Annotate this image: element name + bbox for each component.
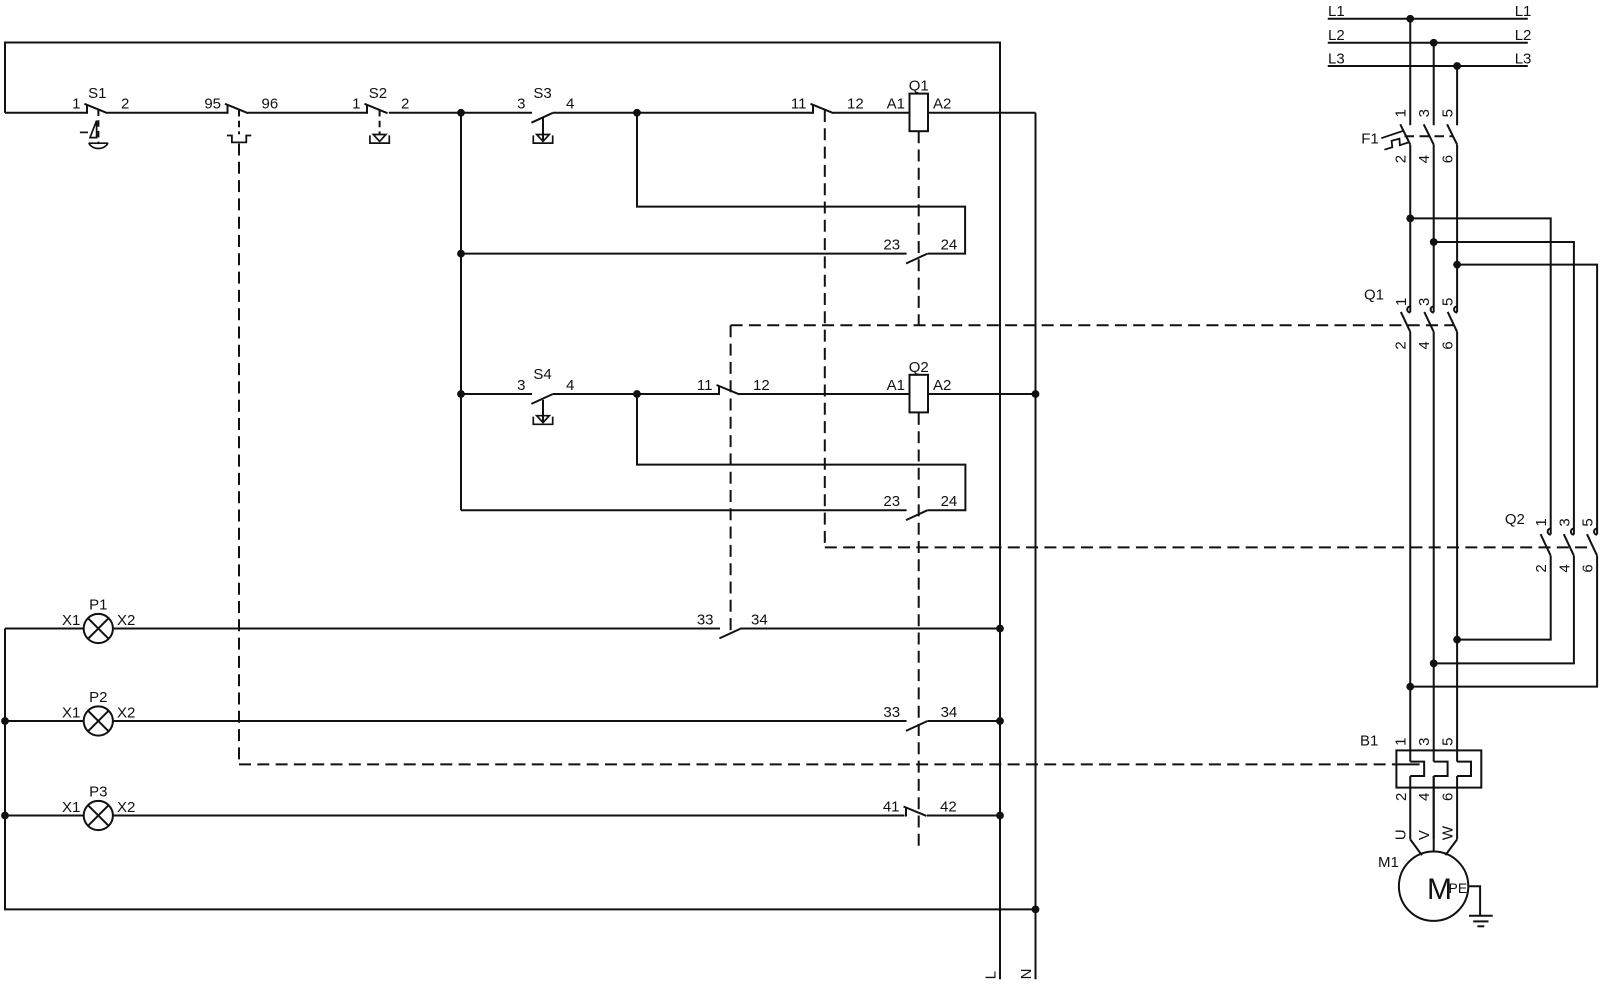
svg-text:6: 6 xyxy=(1440,341,1457,349)
svg-text:3: 3 xyxy=(1416,109,1433,117)
svg-text:F1: F1 xyxy=(1361,130,1379,147)
svg-text:11: 11 xyxy=(697,377,713,394)
svg-text:3: 3 xyxy=(1416,738,1433,746)
svg-text:33: 33 xyxy=(883,704,900,721)
svg-text:24: 24 xyxy=(941,493,958,510)
svg-text:1: 1 xyxy=(1393,738,1410,746)
svg-text:3: 3 xyxy=(517,96,525,113)
svg-text:A2: A2 xyxy=(933,377,951,394)
svg-text:B1: B1 xyxy=(1360,733,1378,750)
svg-text:41: 41 xyxy=(883,798,900,815)
svg-text:1: 1 xyxy=(1393,109,1410,117)
svg-text:A1: A1 xyxy=(887,96,905,113)
svg-text:U: U xyxy=(1393,829,1410,840)
svg-text:L1: L1 xyxy=(1328,3,1345,20)
svg-text:L: L xyxy=(983,971,1000,979)
svg-text:P1: P1 xyxy=(89,597,107,614)
svg-text:5: 5 xyxy=(1440,109,1457,117)
svg-text:6: 6 xyxy=(1580,564,1597,572)
svg-text:X2: X2 xyxy=(117,705,135,722)
svg-text:5: 5 xyxy=(1440,298,1457,306)
svg-text:34: 34 xyxy=(941,704,958,721)
svg-text:6: 6 xyxy=(1440,155,1457,163)
svg-text:96: 96 xyxy=(262,96,279,113)
svg-text:2: 2 xyxy=(401,96,409,113)
svg-text:W: W xyxy=(1440,825,1457,840)
svg-text:3: 3 xyxy=(517,377,525,394)
svg-text:L1: L1 xyxy=(1515,3,1532,20)
svg-text:4: 4 xyxy=(1416,793,1433,801)
svg-text:1: 1 xyxy=(1393,298,1410,306)
svg-text:X2: X2 xyxy=(117,612,135,629)
svg-text:12: 12 xyxy=(847,96,864,113)
svg-text:1: 1 xyxy=(72,96,80,113)
svg-text:Q2: Q2 xyxy=(909,359,929,376)
svg-text:A2: A2 xyxy=(933,96,951,113)
svg-text:23: 23 xyxy=(883,236,900,253)
svg-text:42: 42 xyxy=(940,798,957,815)
svg-text:S1: S1 xyxy=(88,85,106,102)
svg-text:12: 12 xyxy=(753,377,770,394)
svg-text:2: 2 xyxy=(1533,564,1550,572)
svg-text:L3: L3 xyxy=(1515,50,1532,67)
svg-text:S2: S2 xyxy=(369,85,387,102)
svg-text:PE: PE xyxy=(1449,880,1468,896)
svg-text:4: 4 xyxy=(566,377,574,394)
svg-text:X2: X2 xyxy=(117,799,135,816)
svg-text:P3: P3 xyxy=(89,784,107,801)
svg-text:4: 4 xyxy=(566,96,574,113)
svg-text:L3: L3 xyxy=(1328,50,1345,67)
svg-text:S3: S3 xyxy=(533,85,551,102)
svg-text:4: 4 xyxy=(1416,155,1433,163)
svg-text:V: V xyxy=(1416,830,1433,840)
svg-text:2: 2 xyxy=(1393,341,1410,349)
svg-text:L2: L2 xyxy=(1515,27,1532,44)
svg-text:M1: M1 xyxy=(1378,854,1399,871)
svg-text:Q1: Q1 xyxy=(1364,286,1384,303)
svg-text:11: 11 xyxy=(791,96,807,113)
svg-text:5: 5 xyxy=(1580,518,1597,526)
svg-text:24: 24 xyxy=(941,236,958,253)
svg-text:X1: X1 xyxy=(62,705,80,722)
svg-text:N: N xyxy=(1018,969,1035,980)
svg-text:95: 95 xyxy=(204,96,221,113)
svg-text:1: 1 xyxy=(1533,518,1550,526)
svg-text:L2: L2 xyxy=(1328,27,1345,44)
svg-text:P2: P2 xyxy=(89,689,107,706)
svg-text:3: 3 xyxy=(1556,518,1573,526)
svg-text:4: 4 xyxy=(1556,564,1573,572)
svg-text:2: 2 xyxy=(1393,793,1410,801)
svg-text:5: 5 xyxy=(1440,738,1457,746)
svg-text:Q2: Q2 xyxy=(1505,511,1525,528)
svg-text:4: 4 xyxy=(1416,341,1433,349)
svg-text:3: 3 xyxy=(1416,298,1433,306)
svg-text:2: 2 xyxy=(121,96,129,113)
svg-text:Q1: Q1 xyxy=(909,78,929,95)
svg-text:23: 23 xyxy=(883,493,900,510)
svg-text:33: 33 xyxy=(697,611,714,628)
svg-text:6: 6 xyxy=(1440,793,1457,801)
svg-text:A1: A1 xyxy=(887,377,905,394)
svg-text:2: 2 xyxy=(1393,155,1410,163)
svg-text:X1: X1 xyxy=(62,799,80,816)
svg-text:X1: X1 xyxy=(62,612,80,629)
svg-text:1: 1 xyxy=(352,96,360,113)
svg-text:S4: S4 xyxy=(533,366,551,383)
svg-text:34: 34 xyxy=(751,611,768,628)
